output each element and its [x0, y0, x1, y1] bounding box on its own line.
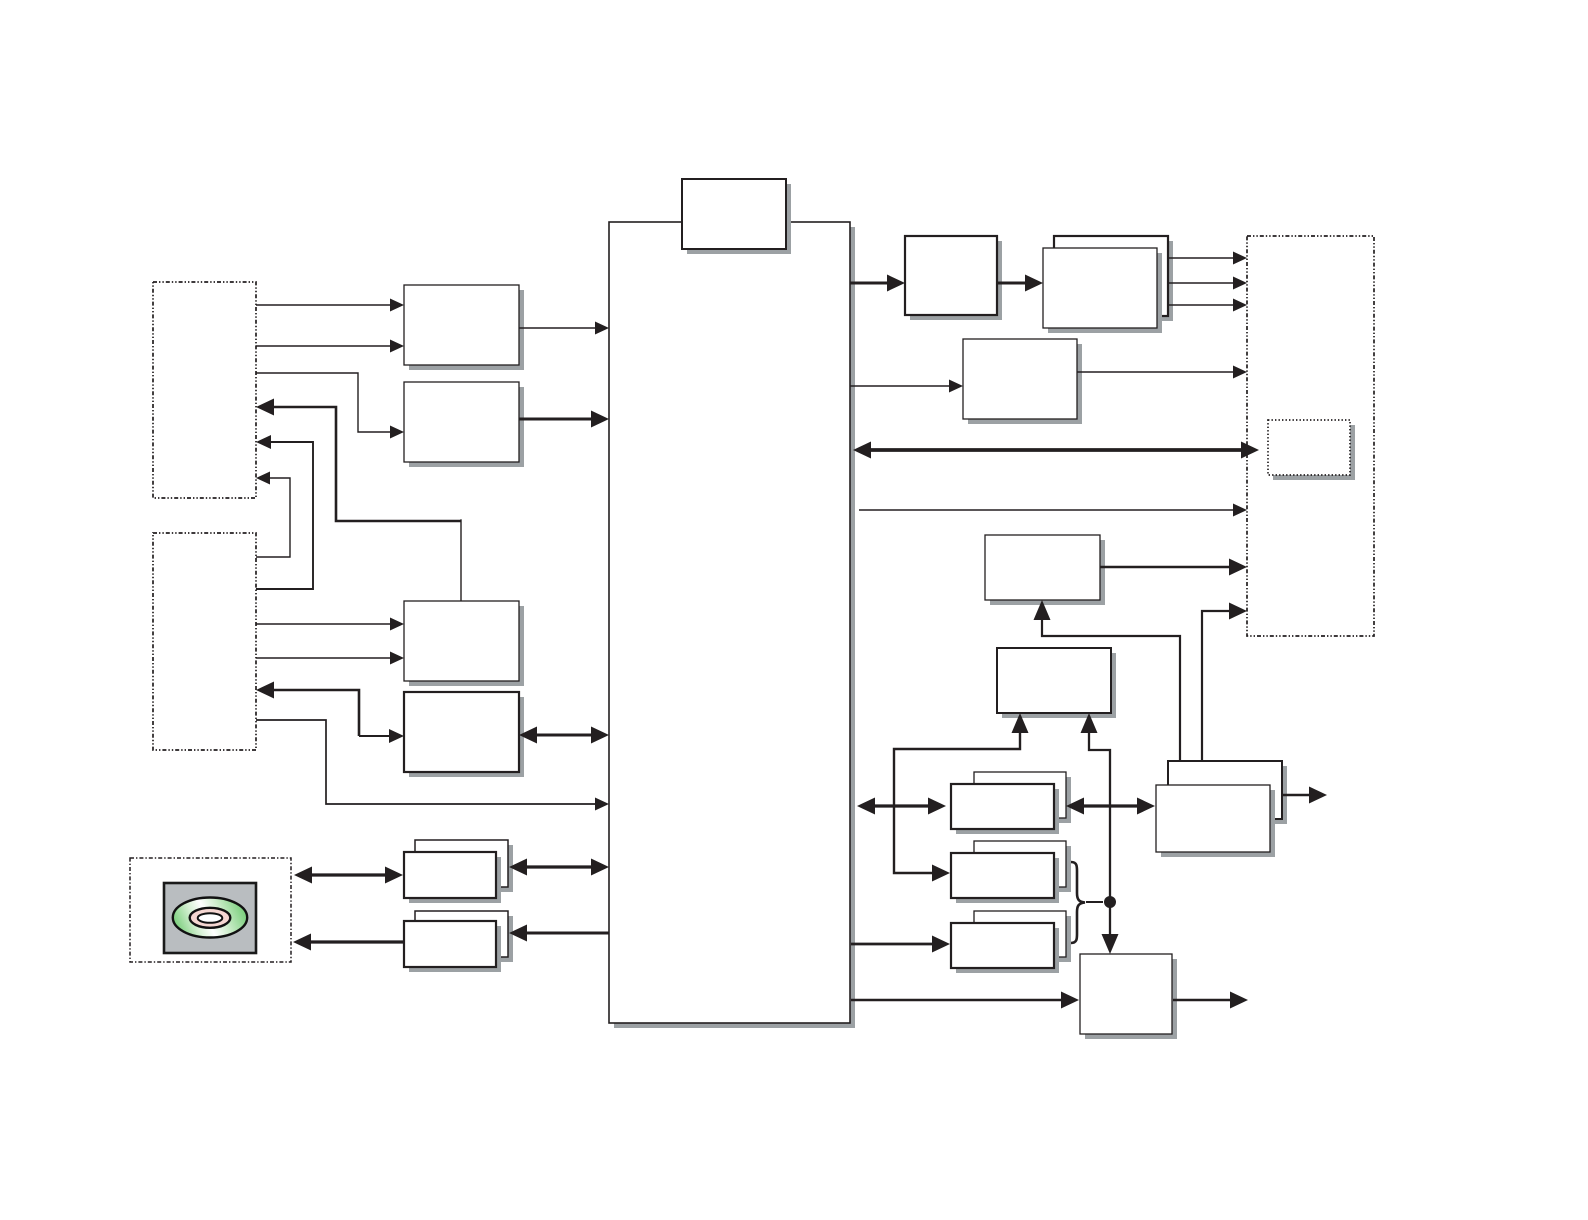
dotted input group box 2 (mid left): [153, 533, 256, 750]
wire: dotted2 to dotted1 (inner jog 2): [256, 472, 290, 558]
brace to junction link: [1086, 901, 1103, 903]
curly brace grouping pairs L and M: [1071, 862, 1085, 943]
stacked pair 2 (left, lower) back box: [415, 911, 513, 962]
disc drive icon: gray plate: [164, 883, 256, 953]
box B: [404, 382, 524, 467]
wire: pair F to output group line 2: [1168, 277, 1247, 290]
wire: pair L link up into box I bottom left: [894, 713, 1029, 882]
wire: pair J up into box H bottom: [1034, 600, 1181, 761]
wire: dotted1 to box A input 1: [256, 299, 404, 312]
dotted output group box (tall, right): [1247, 236, 1374, 636]
wire: box A to central block: [519, 322, 609, 335]
dotted input group box 1 (top left): [153, 282, 256, 498]
stacked pair K back box: [974, 772, 1071, 823]
stacked pair K front box: [951, 784, 1059, 834]
stacked pair L back box: [974, 841, 1071, 892]
wire: box D / dotted2 thick L-link: [256, 682, 404, 744]
wire: dotted2 to box C input 1: [256, 618, 404, 631]
top small box shadow overlapping central top edge: [682, 179, 791, 254]
wire: box C top up-left thick feedback into dotted1: [256, 399, 461, 602]
box D: [404, 692, 524, 777]
stacked pair F back box: [1054, 236, 1173, 321]
wire: central block to box E thick: [850, 275, 905, 292]
wire: central block to output group wide bidirectional bus: [853, 442, 1259, 459]
wire: pair J output arrow: [1282, 787, 1327, 804]
wire: pair F to output group line 1: [1168, 252, 1247, 265]
box A (upper left column): [404, 285, 524, 370]
wire: box N output arrow: [1173, 992, 1248, 1009]
wire: pair J up to output group thick: [1202, 603, 1247, 762]
disc drive icon: CD disc: [173, 898, 247, 938]
wire: box G to output group: [1077, 366, 1247, 379]
wire: central block to pair M: [851, 936, 950, 953]
wire: dotted2 to box C input 2: [256, 652, 404, 665]
box H: [985, 535, 1105, 605]
wire: central block to output group thin line: [859, 504, 1247, 517]
wire: box H to output group thick: [1100, 559, 1247, 576]
wire: central block to box N: [851, 992, 1079, 1009]
wire: box D to central block bidirectional: [519, 727, 609, 744]
wire: box E to stacked pair F thick: [997, 275, 1043, 292]
stacked pair J front box: [1156, 785, 1275, 857]
stacked pair M front box: [951, 923, 1059, 973]
wire: disc drive to stacked pair 1 bidirectional: [294, 867, 403, 884]
box N (bottom right): [1080, 954, 1177, 1039]
wire: central block to pair K bidirectional: [857, 798, 946, 815]
wire: dotted1 to box A input 2: [256, 340, 404, 353]
wire: junction riser into box I bottom right and down to box N: [1081, 713, 1119, 954]
small dotted box inside output group: [1268, 420, 1355, 480]
wire: dotted2 to dotted1 (inner jog 1): [256, 435, 313, 589]
wire: pair F to output group line 3: [1168, 299, 1247, 312]
wire: box B to central block thick: [519, 411, 609, 428]
box C: [404, 601, 524, 686]
junction dot: [1104, 896, 1116, 908]
stacked pair 2 front box: [404, 921, 501, 972]
box I: [997, 648, 1116, 718]
stacked pair 1 front box: [404, 852, 501, 903]
stacked pair M back box: [974, 911, 1071, 962]
wire: pair K to pair J bidirectional: [1066, 798, 1155, 815]
wire: dotted1 to box B input (jog): [256, 373, 404, 439]
stacked pair L front box: [951, 853, 1059, 903]
wire: central block to stacked pair 2: [509, 925, 609, 942]
wire: stacked pair 1 to central block bidirectional: [509, 859, 609, 876]
box G: [963, 339, 1082, 424]
wire: central block to box G: [850, 380, 963, 393]
wire: dotted2 to central block (long bottom jog): [256, 720, 609, 811]
wire: stacked pair 2 to disc drive: [293, 934, 404, 951]
stacked pair 1 (left, upper) back box: [415, 840, 513, 892]
stacked pair F front box: [1043, 248, 1162, 333]
stacked pair J back box: [1168, 761, 1287, 824]
box E (top right): [905, 236, 1002, 320]
dotted disc-drive box (bottom left): [130, 858, 291, 962]
central tall block: [609, 222, 855, 1028]
